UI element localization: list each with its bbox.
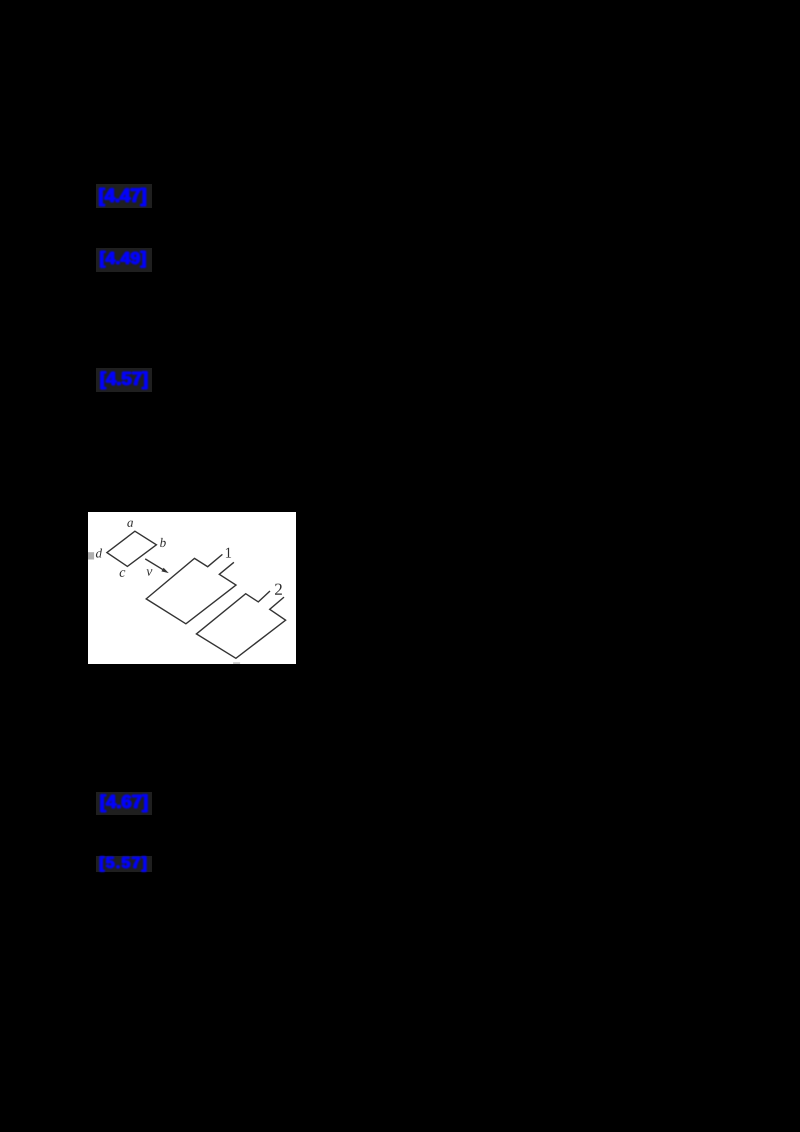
label c bbox=[119, 570, 125, 577]
loop abcd parallelogram bbox=[106, 531, 155, 566]
label d bbox=[95, 548, 101, 557]
region 2 boundary bbox=[196, 591, 285, 658]
figure: loop abcd moving with velocity v into field regions 1 and 2 bbox=[88, 512, 297, 665]
label a bbox=[127, 520, 133, 526]
link 4 bbox=[96, 792, 152, 815]
label v bbox=[146, 569, 152, 576]
velocity arrow shaft bbox=[145, 558, 163, 569]
region 1 boundary bbox=[146, 554, 236, 623]
link 2 bbox=[96, 248, 152, 272]
link 1 bbox=[96, 184, 152, 208]
arrowhead of v bbox=[161, 567, 168, 572]
label 2 bbox=[275, 583, 282, 594]
label 1 bbox=[225, 547, 230, 557]
link 5 bbox=[96, 856, 152, 872]
grey mark at bottom edge bbox=[233, 662, 240, 664]
link 3 bbox=[96, 368, 152, 392]
label b bbox=[160, 537, 166, 546]
grey square on left edge bbox=[87, 552, 94, 559]
